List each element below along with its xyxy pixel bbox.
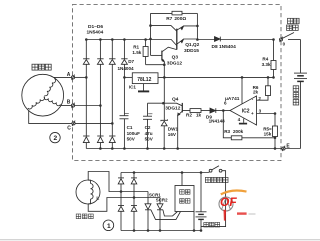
circled 2 <box>50 132 60 142</box>
generator2 circle <box>76 180 100 204</box>
svg-text:3.3k: 3.3k <box>262 62 271 67</box>
svg-text:47u: 47u <box>145 131 153 136</box>
svg-text:IC1: IC1 <box>129 84 137 89</box>
diode D4b column <box>131 198 137 231</box>
top DC bus <box>86 40 177 46</box>
resistor R6 <box>253 77 271 100</box>
svg-text:6: 6 <box>224 101 227 106</box>
bridge column 2 wire <box>99 40 101 149</box>
diode D1 <box>83 59 89 65</box>
diode D9 <box>206 108 225 123</box>
junction dots main <box>85 24 276 150</box>
svg-text:D7: D7 <box>128 59 134 64</box>
node A connector <box>54 72 75 80</box>
svg-text:C: C <box>67 126 71 132</box>
pin3 wire <box>257 108 276 113</box>
svg-text:2k: 2k <box>253 89 259 94</box>
svg-text:3: 3 <box>259 108 262 113</box>
gen2 top wire to phase A2 <box>88 172 148 192</box>
bridge column 1 wire <box>85 39 87 149</box>
resistor R1 <box>132 39 148 65</box>
wire phase A <box>75 76 87 78</box>
diode D8 <box>197 37 273 51</box>
gen2 bottom wire to phase B2 <box>88 198 160 212</box>
diode D3b column <box>118 192 124 231</box>
dashed enclosure box <box>73 5 282 161</box>
label D1~D6 1N5404 <box>87 24 104 36</box>
right vertical R7-D8 <box>196 13 198 39</box>
svg-text:100uF: 100uF <box>127 131 140 136</box>
generator2 coil <box>88 180 99 204</box>
diode D6 (lower col3) <box>109 136 115 143</box>
svg-text:+: + <box>251 111 254 116</box>
svg-text:200k: 200k <box>233 129 244 134</box>
svg-text:R2: R2 <box>186 113 192 118</box>
svg-text:1N5404: 1N5404 <box>87 30 104 36</box>
label Q1,Q2 3DD15 <box>184 42 200 54</box>
wire phase C <box>75 122 112 124</box>
pin7 riser <box>241 77 243 104</box>
svg-text:IC2: IC2 <box>242 108 250 114</box>
box ground wire <box>193 212 195 231</box>
svg-text:L: L <box>96 195 99 201</box>
svg-text:0: 0 <box>283 42 286 47</box>
generator windings (Y) <box>45 79 56 96</box>
wire R1 to Q3 emitter node <box>146 64 165 66</box>
svg-text:3DG12: 3DG12 <box>167 61 183 67</box>
svg-text:15k: 15k <box>264 132 272 137</box>
svg-text:R7: R7 <box>166 16 172 22</box>
watermark logo <box>219 190 256 220</box>
transistor Q4 <box>148 97 191 149</box>
pin4 ground <box>238 117 248 124</box>
svg-text:16V: 16V <box>168 132 177 137</box>
transistor Q1 <box>151 26 198 32</box>
op-amp IC2 <box>225 96 257 125</box>
svg-text:C1: C1 <box>127 125 133 130</box>
battery2 <box>196 173 207 231</box>
svg-text:B: B <box>67 100 71 106</box>
resistor R4 <box>262 40 276 78</box>
capacitor C2 <box>143 103 154 148</box>
diode D5 (lower col2) <box>97 136 103 143</box>
svg-text:200Ω: 200Ω <box>174 16 186 22</box>
svg-text:DW1: DW1 <box>168 126 179 131</box>
svg-text:1k: 1k <box>196 113 202 118</box>
svg-text:OF: OF <box>220 195 237 209</box>
svg-text:4: 4 <box>238 117 241 122</box>
svg-text:50V: 50V <box>127 137 136 142</box>
ground bus (main) <box>86 148 300 150</box>
IC1 ground <box>138 84 149 92</box>
node C connector <box>29 111 75 132</box>
transistor Q2 <box>177 29 198 50</box>
svg-text:A: A <box>67 72 71 78</box>
svg-text:R4: R4 <box>262 56 268 61</box>
svg-text:R3: R3 <box>224 129 230 134</box>
regulator IC1 78L12 <box>129 73 158 90</box>
resistor R2 <box>186 109 210 118</box>
svg-text:78L12: 78L12 <box>137 77 151 83</box>
svg-text:3DG12: 3DG12 <box>165 105 181 111</box>
pin6 output <box>223 101 230 111</box>
lighting switch label <box>205 177 228 182</box>
node B connector <box>61 100 75 109</box>
base feed vertical <box>150 13 152 55</box>
wire phase B <box>75 105 101 107</box>
svg-text:D1~D6: D1~D6 <box>88 24 103 30</box>
battery label (xudianchi) vertical <box>293 86 299 105</box>
box top riser <box>181 173 183 186</box>
svg-text:1: 1 <box>107 223 111 230</box>
bridge column 3 wire <box>111 39 113 149</box>
transistor Q3 <box>151 47 183 77</box>
svg-text:Q3: Q3 <box>172 54 179 60</box>
svg-text:1N4004: 1N4004 <box>118 66 135 71</box>
node E connector <box>282 144 291 152</box>
diode D1b column <box>118 173 124 192</box>
bottom bus 2 <box>121 230 201 232</box>
page bottom rule <box>0 239 320 241</box>
pin2 wire <box>258 96 261 101</box>
svg-text:SCR2: SCR2 <box>156 198 168 203</box>
svg-text:50V: 50V <box>145 137 154 142</box>
svg-text:D8 1N5404: D8 1N5404 <box>212 44 237 50</box>
zener DW1 <box>161 77 179 148</box>
capacitor C1 <box>120 113 141 148</box>
+12V rail <box>158 76 274 78</box>
svg-text:1N4148: 1N4148 <box>209 118 226 123</box>
generator label (cizidianji) <box>32 64 51 70</box>
resistor R5 <box>263 114 277 149</box>
svg-text:1.5k: 1.5k <box>132 50 141 55</box>
svg-text:Q1,Q2: Q1,Q2 <box>185 42 199 48</box>
power switch <box>280 33 301 47</box>
lighting switch <box>201 166 226 227</box>
diode D7 <box>118 40 135 116</box>
circled 1 <box>103 220 114 231</box>
diode D2b column <box>131 173 137 198</box>
generator2 label <box>76 214 93 219</box>
svg-text:3DD15: 3DD15 <box>184 48 199 54</box>
svg-text:μA741: μA741 <box>225 96 240 102</box>
svg-text:2: 2 <box>54 135 58 142</box>
svg-text:C2: C2 <box>145 125 151 130</box>
svg-text:R1: R1 <box>133 44 139 49</box>
resistor R7 <box>151 11 198 22</box>
diode D4 (lower col1) <box>83 136 89 143</box>
top bus 2 <box>121 172 209 174</box>
junction dots bottom <box>120 171 203 232</box>
SCR1 <box>145 192 181 231</box>
power switch label <box>287 18 300 30</box>
SCR2 <box>156 198 178 231</box>
diode D3 <box>109 59 115 65</box>
IC1 input wire <box>124 76 132 78</box>
battery2 label <box>204 222 220 227</box>
control circuit box <box>175 186 194 212</box>
battery (storage) <box>294 40 307 149</box>
resistor R3 feedback <box>223 111 275 140</box>
diode D2 <box>97 59 103 65</box>
generator (magneto) circle <box>22 74 64 116</box>
svg-text:Q4: Q4 <box>172 97 179 103</box>
